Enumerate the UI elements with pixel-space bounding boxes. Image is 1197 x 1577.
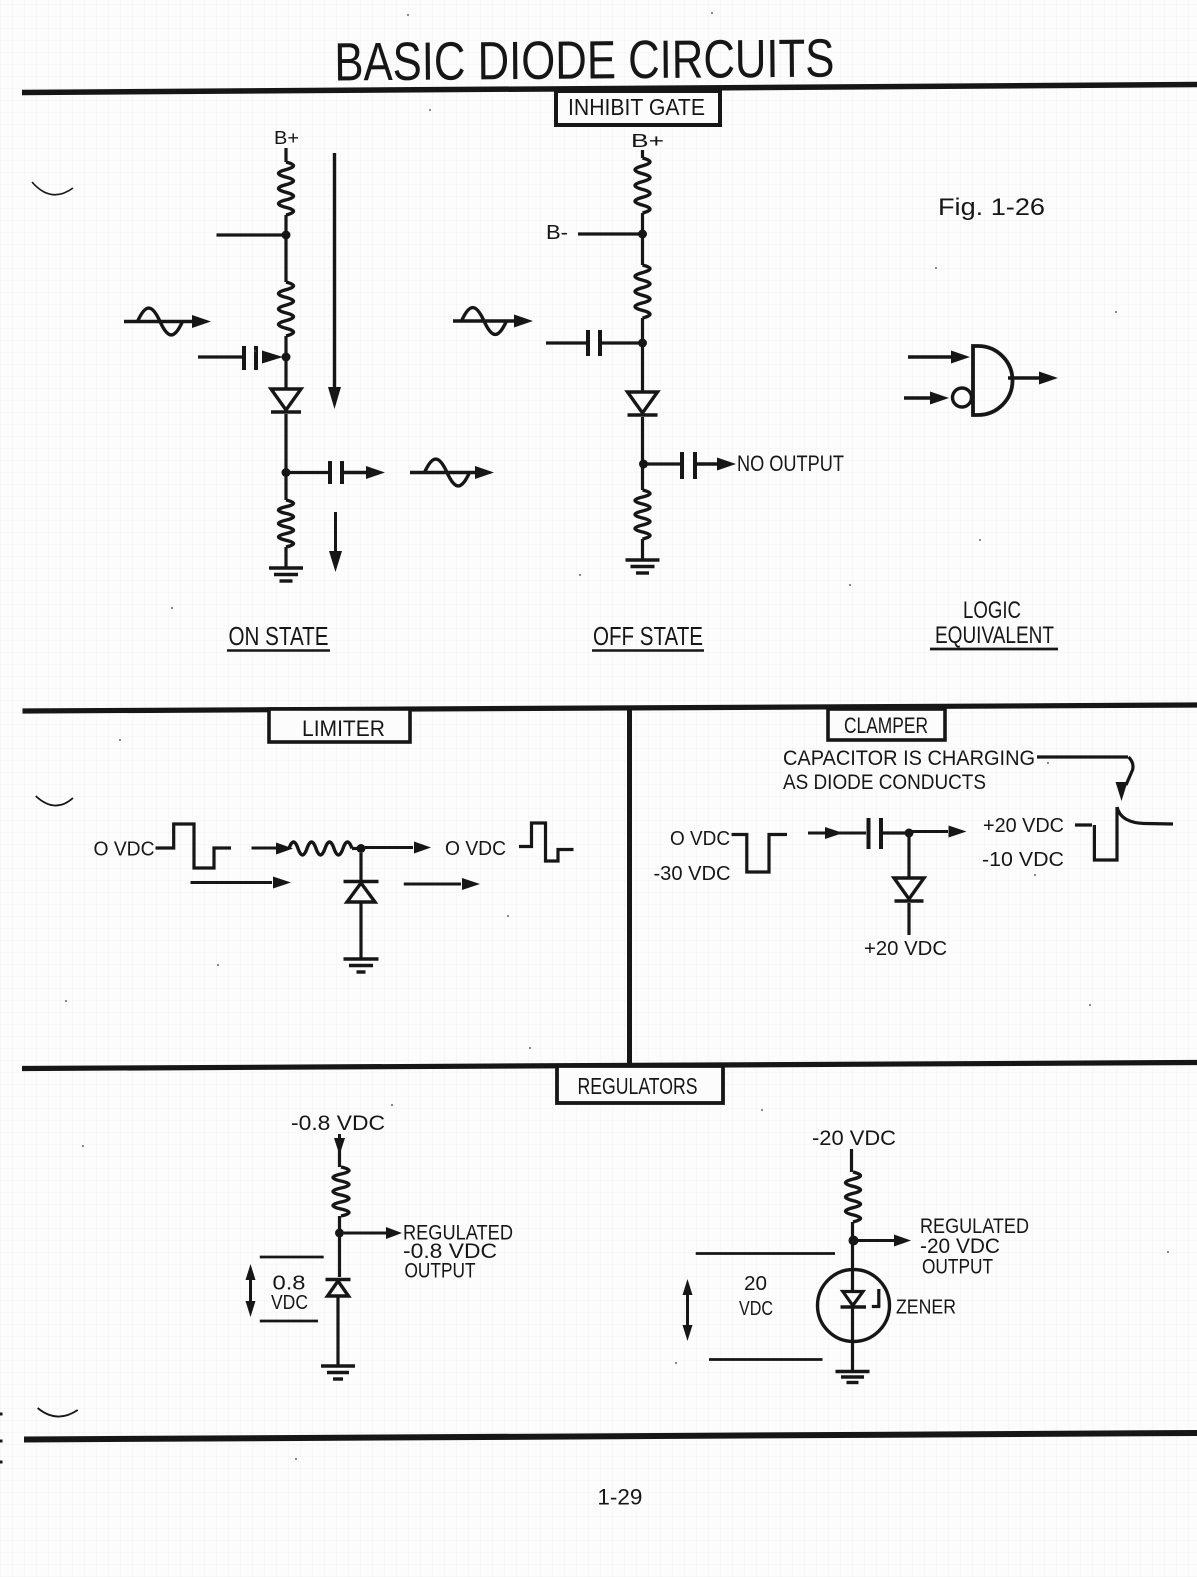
ground symbol (on state) [269, 566, 303, 569]
junction dot (right regulator) [849, 1236, 859, 1246]
wire R9 to junction [851, 1222, 854, 1246]
upper reference tick (left regulator) [260, 1256, 324, 1259]
clamp diode CR4 (clamper, pointing down) [894, 878, 924, 899]
long current-flow arrow (on state) [333, 153, 336, 388]
wire R4 to junction [641, 213, 644, 265]
svg-text:O VDC: O VDC [445, 838, 506, 860]
wire CR5 to ground [336, 1296, 339, 1365]
resistor R9 (right regulator) [846, 1172, 861, 1222]
svg-text:Fig. 1-26: Fig. 1-26 [938, 194, 1045, 221]
scan artifact curl bottom-left [38, 1408, 78, 1417]
junction dot output (on state) [282, 468, 291, 477]
resistor R8 (left regulator) [333, 1167, 349, 1216]
wire zener to ground [851, 1307, 854, 1370]
output arrow (left regulator) [344, 1232, 388, 1235]
svg-text:OUTPUT: OUTPUT [405, 1260, 476, 1283]
lower-right flow arrow (limiter) [404, 883, 461, 886]
wire diode to ground (limiter) [359, 902, 362, 958]
resistor R2 (on-state middle) [279, 282, 294, 336]
wire CR2 to output junction [641, 417, 644, 490]
series capacitor C5 (clamper) [867, 818, 871, 849]
svg-text:-0.8 VDC: -0.8 VDC [291, 1112, 385, 1135]
output waveform with charging decay (clamper) [1075, 807, 1117, 860]
wire R3 to ground [284, 547, 287, 568]
diode CR5 (left regulator, cathode up) [326, 1278, 351, 1281]
junction dot at C3 (off state) [638, 339, 647, 348]
svg-text:O VDC: O VDC [670, 828, 730, 850]
svg-text:B+: B+ [631, 131, 664, 151]
svg-text:REGULATORS: REGULATORS [578, 1073, 698, 1099]
diode CR1 (on state, pointing down) [271, 389, 301, 410]
junction dot output (off state) [639, 460, 648, 469]
wire to resistor R9 [850, 1149, 853, 1172]
zener diode VR1 (triangle down with bar) [843, 1292, 863, 1306]
output wire with arrowhead [1008, 376, 1041, 379]
output wire with arrow (limiter) [365, 846, 413, 849]
leader line from caption [1037, 755, 1128, 758]
svg-text:OUTPUT: OUTPUT [922, 1256, 993, 1279]
wire stub left at upper junction [217, 233, 287, 236]
svg-text:BASIC DIODE CIRCUITS: BASIC DIODE CIRCUITS [334, 29, 834, 93]
voltage span double arrow (right regulator) [686, 1287, 689, 1333]
input sine wave symbol (on state) [124, 320, 196, 323]
svg-text:LOGIC: LOGIC [963, 597, 1021, 624]
wire below diode (clamper) [907, 903, 910, 935]
input sine wave symbol (off state) [453, 319, 517, 322]
AND gate U1 (logic equivalent) [973, 346, 1013, 415]
diode CR2 (off state, pointing down) [628, 392, 658, 413]
wire from B+ to R1 [284, 148, 287, 162]
series resistor R7 (limiter) [289, 842, 352, 855]
junction dot upper (on state) [282, 231, 291, 240]
resistor R4 (off-state upper) [635, 158, 650, 213]
CLAMPER title box [828, 709, 945, 740]
svg-text:B+: B+ [274, 128, 299, 148]
svg-text:VDC: VDC [739, 1298, 773, 1320]
curved leader arrow down [1126, 757, 1133, 785]
svg-text:LIMITER: LIMITER [302, 716, 385, 741]
shunt diode CR3 (limiter, cathode up) [344, 880, 379, 883]
output sine wave symbol (on state) [410, 471, 478, 474]
svg-text:CLAMPER: CLAMPER [844, 713, 928, 738]
ground symbol (limiter) [344, 957, 379, 960]
short current-flow arrow (on state lower) [334, 512, 337, 552]
zener cathode bend mark [877, 1289, 880, 1307]
junction dot (left regulator) [335, 1229, 344, 1238]
lower-left flow arrow (limiter) [191, 881, 273, 884]
INHIBIT GATE title box [556, 91, 720, 125]
ground symbol (right regulator) [836, 1370, 870, 1373]
resistor R5 (off-state middle) [635, 265, 650, 318]
third horizontal rule [22, 1063, 1197, 1069]
top horizontal rule [22, 85, 1197, 93]
inverter bubble on bottom input [953, 388, 972, 407]
wire CR1 to output junction [284, 414, 287, 500]
wire R8 to junction [338, 1216, 341, 1277]
scan artifact curl middle-left [36, 796, 73, 806]
junction dot (limiter) [357, 844, 366, 853]
bottom horizontal rule [24, 1433, 1197, 1440]
svg-text:-30 VDC: -30 VDC [654, 863, 731, 885]
output arrow (right regulator) [858, 1239, 895, 1242]
second horizontal rule [23, 705, 1197, 711]
wire R2 to cap junction [284, 336, 287, 390]
page title: BASIC DIODE CIRCUITS [334, 29, 834, 93]
output coupling capacitor C2 (on state) [290, 471, 328, 474]
voltage span double arrow (left regulator) [249, 1272, 252, 1310]
svg-text:-10 VDC: -10 VDC [982, 849, 1064, 871]
svg-text:NO OUTPUT: NO OUTPUT [737, 451, 844, 476]
upper reference line (right regulator) [696, 1252, 835, 1255]
wire R1 to junction [284, 215, 287, 282]
lower reference line (right regulator) [709, 1358, 823, 1361]
svg-text:+20 VDC: +20 VDC [864, 938, 947, 960]
LIMITER title box [269, 709, 410, 742]
wire to resistor R8 [338, 1150, 341, 1167]
svg-text:ZENER: ZENER [896, 1297, 956, 1319]
svg-text:INHIBIT GATE: INHIBIT GATE [568, 94, 705, 120]
junction dot at C1 (on state) [282, 353, 291, 362]
lower reference tick (left regulator) [260, 1320, 318, 1323]
output pulse waveform (limiter) [519, 823, 574, 861]
svg-text:VDC: VDC [271, 1292, 308, 1314]
arrow into junction from C1 [262, 351, 283, 364]
svg-text:-20 VDC: -20 VDC [812, 1127, 896, 1150]
wire R5 to cap junction [641, 318, 644, 392]
svg-text:OFF STATE: OFF STATE [593, 621, 703, 651]
scan artifact curl top-left [32, 182, 73, 195]
resistor R1 (on-state upper) [279, 162, 294, 215]
junction dot (clamper) [905, 829, 914, 838]
input arrow (clamper) [808, 832, 866, 835]
svg-text:O VDC: O VDC [94, 839, 155, 861]
output arrow (clamper) [909, 830, 948, 833]
svg-text:AS DIODE CONDUCTS: AS DIODE CONDUCTS [783, 771, 986, 794]
vertical divider between limiter and clamper [627, 708, 632, 1065]
wire from B+ to R4 [641, 150, 644, 158]
output capacitor C4 (off state) [647, 462, 680, 465]
wire junction to diode (clamper) [907, 837, 910, 878]
down arrow from source [338, 1134, 341, 1145]
wire junction to diode (limiter) [359, 853, 362, 880]
svg-text:20: 20 [744, 1273, 767, 1295]
resistor R6 (off-state lower) [635, 490, 650, 539]
input coupling capacitor C3 (off state) [546, 341, 586, 344]
svg-text:B-: B- [546, 222, 568, 244]
svg-text:+20 VDC: +20 VDC [983, 815, 1064, 837]
REGULATORS title box [557, 1066, 723, 1103]
top input wire with arrowhead [908, 355, 952, 358]
input arrow (limiter) [252, 847, 281, 850]
ground symbol (off state) [626, 558, 660, 561]
resistor R3 (on-state lower) [279, 500, 294, 547]
input coupling capacitor C1 (on state) [198, 355, 242, 358]
input pulse waveform (limiter) [156, 824, 232, 868]
svg-text:1-29: 1-29 [597, 1485, 642, 1510]
bottom input wire with arrowhead [904, 396, 930, 399]
input pulse waveform (clamper) [732, 835, 788, 873]
svg-text:EQUIVALENT: EQUIVALENT [935, 622, 1054, 649]
zener circle (right regulator) [818, 1270, 890, 1342]
svg-text:CAPACITOR IS CHARGING: CAPACITOR IS CHARGING [783, 747, 1035, 770]
wire into zener [851, 1246, 854, 1292]
svg-text:ON STATE: ON STATE [229, 621, 329, 651]
wire R6 to ground [641, 539, 644, 560]
junction dot upper (off state) [638, 230, 647, 239]
binding marks left edge [0, 1413, 3, 1416]
ground symbol (left regulator) [321, 1364, 355, 1367]
scan speckles [711, 12, 713, 14]
